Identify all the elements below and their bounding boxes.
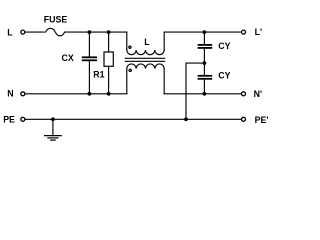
terminal L' bbox=[242, 27, 263, 37]
fuse FUSE bbox=[44, 14, 68, 35]
svg-text:CX: CX bbox=[62, 53, 74, 63]
junction bbox=[203, 61, 207, 65]
junction bbox=[88, 30, 92, 34]
wire bbox=[25, 93, 126, 95]
svg-text:FUSE: FUSE bbox=[44, 14, 68, 24]
svg-text:CY: CY bbox=[218, 71, 230, 81]
wire PE bbox=[25, 118, 241, 120]
svg-text:L': L' bbox=[255, 27, 262, 37]
ground bbox=[45, 119, 62, 140]
resistor R1 bbox=[93, 32, 113, 94]
junction bbox=[88, 92, 92, 96]
svg-text:CY: CY bbox=[218, 41, 230, 51]
terminal N' bbox=[242, 89, 263, 99]
junction bbox=[203, 30, 207, 34]
terminal L bbox=[7, 28, 25, 38]
svg-text:R1: R1 bbox=[93, 69, 104, 79]
junction bbox=[184, 117, 188, 121]
svg-text:L: L bbox=[144, 37, 150, 47]
svg-text:PE: PE bbox=[3, 115, 15, 125]
wire bbox=[186, 63, 204, 119]
terminal PE' bbox=[242, 115, 269, 125]
terminal N bbox=[7, 89, 25, 99]
inductor L1 common-mode choke bbox=[125, 32, 164, 94]
wire bbox=[164, 31, 241, 33]
svg-text:L: L bbox=[7, 28, 13, 38]
svg-text:N': N' bbox=[254, 89, 262, 99]
junction bbox=[107, 92, 111, 96]
svg-text:PE': PE' bbox=[255, 115, 269, 125]
wire bbox=[25, 31, 44, 33]
wire bbox=[164, 93, 241, 95]
capacitor CY2 bbox=[198, 63, 231, 94]
svg-text:N: N bbox=[7, 89, 13, 99]
junction bbox=[203, 92, 207, 96]
junction bbox=[51, 117, 55, 121]
wire bbox=[65, 31, 127, 33]
terminal PE bbox=[3, 115, 25, 125]
capacitor CY1 bbox=[198, 32, 231, 63]
capacitor CX bbox=[62, 32, 98, 94]
junction bbox=[107, 30, 111, 34]
